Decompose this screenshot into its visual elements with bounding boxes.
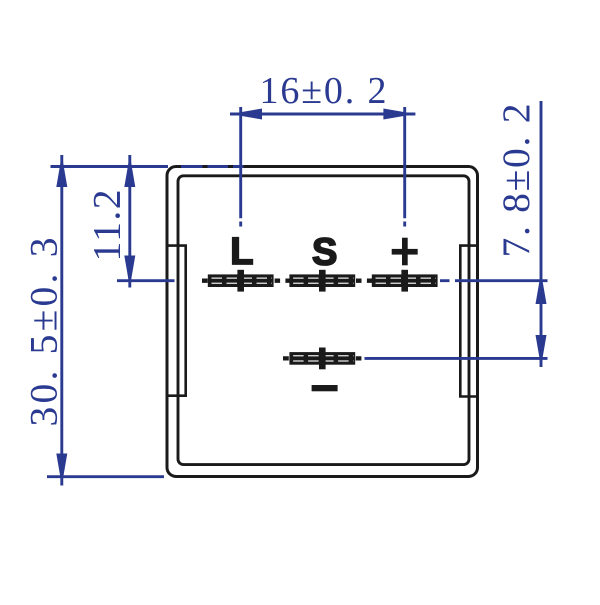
svg-text:S: S [312,231,337,273]
pin + slot [372,270,438,292]
svg-text:30. 5±0. 3: 30. 5±0. 3 [22,238,66,427]
pin + vertical centerline (x=404.7) [403,107,406,227]
pin S slot [289,270,355,292]
centerline left of body (11.2 dim, y=280.7) [117,279,175,282]
extension line top-left (30.5 dim, y=166.5) [51,165,169,168]
pin - slot (bottom) [289,348,355,370]
extension line dashes over body top edge [181,165,244,168]
dimension line 16±0.2 [230,109,415,120]
dimension line 11.2 [124,155,135,288]
pin L slot [208,270,274,292]
dimension line 30.5±0.3 [56,155,67,486]
centerline right of body (7.8 dim, y=280.7) [440,279,548,282]
svg-text:L: L [230,231,253,273]
relay body outer outline [167,167,478,477]
svg-text:11.2: 11.2 [85,190,129,262]
dimension line 7.8±0.2 [536,101,547,367]
label + (drawn) [392,238,418,266]
label - (drawn) [312,385,338,391]
relay body inner outline [178,176,469,465]
black centerline dashes through top pins row [202,279,372,283]
right side window [460,246,477,397]
svg-text:7. 8±0. 2: 7. 8±0. 2 [494,104,538,258]
extension line bottom-left (30.5 dim, y=476.7) [47,475,164,478]
pin L vertical centerline (x=240.7) [239,107,242,227]
black centerline dashes bottom pin [283,356,361,360]
bottom pin centerline extension right (y=358.4) [365,357,548,360]
left side window [168,246,186,396]
